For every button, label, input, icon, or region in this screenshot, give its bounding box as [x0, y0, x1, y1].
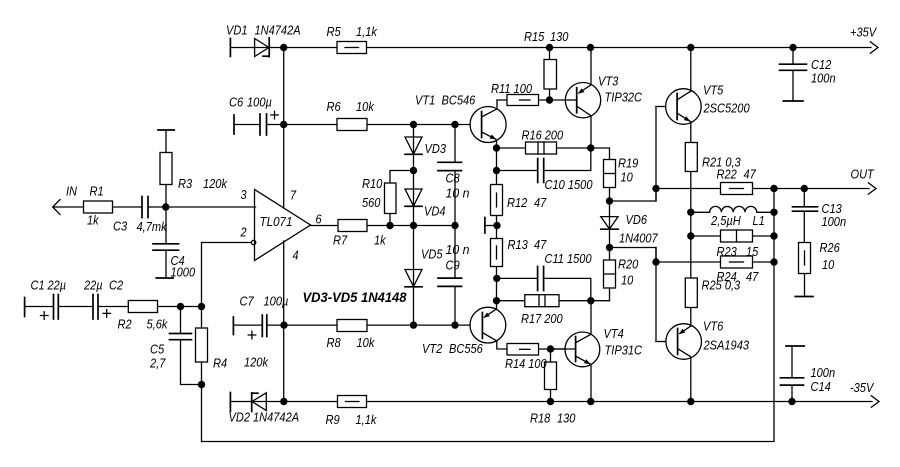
ground bar C14 top	[786, 345, 804, 347]
wire R19 node to VT5 base node	[610, 189, 657, 202]
svg-text:R9: R9	[326, 412, 340, 427]
wire C12 lower lead	[792, 70, 794, 101]
svg-text:R19: R19	[618, 156, 638, 171]
terminal bar VD2	[229, 393, 231, 412]
transistor VT4 TIP31C	[551, 332, 600, 367]
capacitor C9	[438, 278, 462, 286]
resistor R19	[604, 160, 616, 188]
junction R24 right	[770, 258, 777, 265]
junction R10 bottom on R7 row	[386, 222, 393, 229]
capacitor C11	[538, 267, 544, 291]
svg-text:R20: R20	[618, 257, 639, 272]
svg-text:R6: R6	[327, 99, 342, 114]
svg-text:R12: R12	[507, 195, 528, 210]
svg-text:2,5µH: 2,5µH	[710, 213, 741, 228]
svg-text:TL071: TL071	[260, 214, 293, 229]
wire L1 row left	[691, 211, 710, 213]
junction R4 bottom feedback	[198, 381, 205, 388]
wire -35V bottom rail	[230, 401, 872, 403]
wire C3 to node A	[148, 206, 256, 208]
junction R22 right on OUT node	[770, 185, 777, 192]
wire VT5 collector lead	[690, 48, 692, 92]
svg-text:R23: R23	[717, 244, 738, 259]
junction C5 top	[177, 303, 184, 310]
capacitor C1	[41, 295, 59, 320]
junction node A input	[162, 203, 169, 210]
wire VT4 collector lead	[590, 301, 592, 335]
wire C13 upper lead	[803, 189, 805, 207]
wire VT3 emitter lead	[590, 48, 592, 85]
capacitor C4	[153, 244, 179, 250]
svg-text:R8: R8	[327, 335, 342, 350]
junction C13 on OUT row	[801, 185, 808, 192]
svg-text:R26: R26	[820, 240, 841, 255]
wire C6 row	[234, 124, 260, 126]
junction VT5 base OUT row	[652, 185, 659, 192]
resistor R15	[544, 60, 557, 90]
wire R10 top jog	[390, 171, 414, 184]
wire C12 leads	[792, 48, 794, 65]
terminal arrow +35V	[870, 42, 878, 53]
wire C9 bottom lead	[454, 287, 456, 326]
wire node A to C4	[165, 207, 167, 244]
svg-text:100n: 100n	[811, 71, 836, 86]
svg-text:4: 4	[293, 248, 299, 263]
svg-text:C3: C3	[113, 219, 128, 234]
svg-text:R5: R5	[327, 24, 342, 39]
svg-text:2: 2	[240, 225, 248, 240]
junction C14 on -35V rail	[788, 398, 795, 405]
wire VD6 node to VT6 base column	[610, 248, 657, 263]
resistor R7	[338, 220, 367, 232]
wire output devices emitter column R21 R25	[690, 122, 692, 326]
diode VD5	[405, 270, 422, 287]
resistor R25	[685, 278, 697, 308]
svg-text:VD5: VD5	[421, 247, 443, 262]
svg-text:1N4742A: 1N4742A	[253, 410, 299, 425]
svg-text:130: 130	[550, 29, 569, 44]
svg-text:22µ: 22µ	[83, 278, 102, 293]
svg-text:15: 15	[746, 244, 759, 259]
junction C8 C9 node	[451, 222, 458, 229]
svg-text:TIP32C: TIP32C	[605, 90, 643, 105]
junction R16 C10 VT3 collector node	[587, 144, 594, 151]
zener diode VD2	[252, 393, 267, 412]
op-amp U1 TL071	[255, 190, 311, 261]
junction C12 on +35V rail	[789, 44, 796, 51]
wire R10 bottom	[389, 214, 391, 226]
svg-text:100n: 100n	[811, 365, 836, 380]
wire C2 to pin2 node	[98, 306, 202, 308]
wire R18 column	[550, 349, 552, 402]
resistor R1	[84, 201, 113, 213]
zener diode VD1	[255, 38, 270, 57]
svg-text:3: 3	[241, 187, 248, 202]
svg-text:C2: C2	[109, 278, 124, 293]
resistor R13	[491, 239, 503, 267]
svg-text:4,7mk: 4,7mk	[137, 219, 168, 234]
junction VD2 R9 pin4 node	[280, 398, 287, 405]
svg-text:R1: R1	[90, 184, 104, 199]
wire VT2 collector to R14 to VT4 base	[497, 341, 565, 349]
svg-text:R3: R3	[178, 176, 193, 191]
wire R26 lower lead	[804, 274, 806, 297]
svg-text:1,1k: 1,1k	[356, 412, 378, 427]
wire R11 row	[497, 99, 565, 101]
wire C5 branch	[180, 307, 182, 334]
wire op-amp supply column pin7	[283, 48, 285, 209]
wire C7 to R8 to VT2 base	[267, 324, 470, 326]
svg-text:47: 47	[746, 269, 759, 284]
junction VD5 bottom	[410, 321, 417, 328]
svg-text:VT3: VT3	[598, 74, 619, 89]
svg-text:VD6: VD6	[626, 212, 648, 227]
wire C7 row	[233, 324, 262, 326]
svg-text:OUT: OUT	[851, 167, 875, 182]
svg-text:VT2: VT2	[422, 341, 443, 356]
resistor R16	[526, 142, 557, 154]
ground bar R3 top	[158, 129, 174, 131]
wire R17 row	[497, 300, 591, 302]
junction R15 top on +35V rail	[546, 44, 553, 51]
junction C7 R8 pin4 node	[280, 321, 287, 328]
terminal bar VD1 anode	[229, 39, 231, 57]
wire R3 C4 column	[165, 130, 167, 207]
svg-text:1k: 1k	[87, 213, 100, 228]
resistor R9	[338, 396, 367, 408]
junction R17 R20 VT4 collector node	[587, 297, 594, 304]
svg-text:5,6k: 5,6k	[147, 317, 169, 332]
wire R19 VD6 R20 column	[609, 160, 611, 301]
svg-text:1k: 1k	[374, 233, 387, 248]
resistor R11	[507, 95, 539, 106]
wire VT3 collector lead	[590, 116, 592, 148]
svg-text:100µ: 100µ	[264, 294, 289, 309]
svg-text:C10 1500: C10 1500	[545, 177, 594, 192]
wire C13 to R26	[803, 211, 805, 242]
junction VT1 emitter R16	[493, 144, 500, 151]
transistor VT2 BC556	[470, 307, 506, 343]
svg-text:120k: 120k	[203, 176, 228, 191]
wire C11 row left	[497, 277, 538, 279]
svg-text:7: 7	[290, 188, 297, 203]
capacitor C14	[781, 378, 804, 385]
svg-text:R17 200: R17 200	[521, 311, 563, 326]
wire feedback path pin2 to OUT column	[202, 189, 775, 442]
svg-text:R4: R4	[213, 356, 227, 371]
junction R13 C11 VT2 emitter	[493, 275, 500, 282]
wire C4 to ground bar	[165, 250, 167, 278]
svg-text:VD3-VD5 1N4148: VD3-VD5 1N4148	[303, 290, 407, 305]
svg-text:47: 47	[534, 237, 547, 252]
wire VT6 base column	[655, 248, 657, 342]
svg-text:R25 0,3: R25 0,3	[702, 278, 741, 293]
svg-text:1,1k: 1,1k	[356, 24, 378, 39]
resistor R3	[160, 153, 172, 185]
terminal bar C1 left	[24, 298, 26, 317]
transistor VT1 BC546	[470, 100, 506, 143]
svg-text:R2: R2	[118, 317, 133, 332]
op-amp inverting input bubble	[251, 240, 255, 244]
junction C9 bottom VT2 base	[451, 321, 458, 328]
svg-text:BC556: BC556	[449, 341, 483, 356]
junction R24 left VT6 base column	[652, 258, 659, 265]
wire VT5 base column	[655, 107, 657, 202]
diode VD4	[405, 189, 422, 206]
svg-text:VT1: VT1	[415, 93, 435, 108]
svg-text:100µ: 100µ	[247, 95, 272, 110]
resistor R20	[604, 260, 616, 288]
wire R16 node to R19 jog	[591, 148, 610, 160]
svg-text:R22: R22	[717, 167, 738, 182]
svg-text:+35V: +35V	[850, 25, 877, 40]
wire R15 lead	[549, 48, 551, 101]
svg-text:R10: R10	[362, 176, 383, 191]
svg-text:C14: C14	[811, 379, 831, 394]
svg-text:VT6: VT6	[703, 319, 724, 334]
resistor R14	[507, 344, 539, 356]
svg-text:10: 10	[822, 257, 835, 272]
svg-text:560: 560	[362, 195, 381, 210]
capacitor C10	[538, 159, 544, 183]
svg-text:L1: L1	[753, 213, 765, 228]
resistor R24	[721, 256, 753, 268]
svg-text:130: 130	[557, 411, 576, 426]
junction C6 R6 pin7 node	[280, 121, 287, 128]
resistor R23	[721, 230, 753, 242]
terminal arrow OUT	[868, 183, 876, 194]
svg-text:10: 10	[621, 170, 634, 185]
junction R18 bottom on -35V rail	[547, 398, 554, 405]
wire C14 lower lead	[791, 385, 793, 401]
junction R14 R18 VT4 base	[547, 345, 554, 352]
junction R11 R15 VT3 base	[546, 96, 553, 103]
wire C11 row right jog	[544, 278, 591, 300]
transistor VT3 TIP32C	[565, 83, 600, 118]
junction R17 left	[493, 297, 500, 304]
capacitor C3	[142, 197, 148, 218]
resistor R2	[128, 301, 157, 313]
wire feedback stub	[485, 225, 497, 227]
junction R23 left	[687, 232, 694, 239]
svg-text:10 n: 10 n	[446, 242, 470, 257]
resistor R26	[799, 243, 811, 274]
svg-text:C1: C1	[31, 278, 45, 293]
svg-text:2SA1943: 2SA1943	[703, 338, 750, 353]
capacitor C5	[170, 334, 192, 340]
svg-text:C6: C6	[229, 95, 244, 110]
junction VD3 VD4 R10 node	[410, 167, 417, 174]
ground bar C4 bottom	[156, 277, 173, 279]
wire C10 row left	[497, 170, 538, 172]
resistor R12	[491, 185, 503, 216]
junction L1 left	[687, 209, 694, 216]
wire VT5 base stub	[656, 106, 666, 108]
svg-text:R18: R18	[530, 411, 551, 426]
capacitor C6	[260, 111, 278, 135]
wire C1 to C2	[58, 306, 93, 308]
junction R23 right	[770, 232, 777, 239]
svg-text:10k: 10k	[357, 335, 376, 350]
svg-text:R14 100: R14 100	[505, 356, 547, 371]
svg-text:C9: C9	[446, 258, 460, 273]
svg-text:R13: R13	[508, 237, 529, 252]
svg-text:10: 10	[621, 273, 634, 288]
svg-text:C11 1500: C11 1500	[545, 251, 593, 266]
resistor R5	[337, 42, 367, 54]
junction node VD1 R5 pin7	[280, 44, 287, 51]
wire VT6 collector lead	[690, 357, 692, 401]
wire C10 row right jog	[544, 148, 591, 171]
wire C6 to R6 to VT1 base	[267, 124, 471, 126]
wire OUT row	[656, 188, 869, 190]
wire VT4 emitter lead	[590, 365, 592, 402]
svg-text:TIP31C: TIP31C	[605, 343, 643, 358]
junction VD4 VD5 node	[410, 222, 417, 229]
wire R7 row pin6	[311, 225, 456, 227]
resistor R21	[685, 143, 697, 172]
svg-text:VT5: VT5	[703, 83, 724, 98]
svg-text:C7: C7	[240, 294, 255, 309]
svg-text:10 n: 10 n	[446, 186, 470, 201]
junction VT5 collector on +35V rail	[687, 44, 694, 51]
terminal bar C6 left	[233, 115, 235, 134]
capacitor C13	[793, 207, 818, 211]
wire C8 C9 middle column	[454, 171, 456, 278]
junction VD3 top	[410, 121, 417, 128]
resistor R10	[385, 183, 397, 214]
wire R20 bottom jog	[591, 300, 610, 302]
terminal bar C7 left	[232, 317, 234, 335]
svg-text:R7: R7	[333, 233, 348, 248]
feedback tap bar	[484, 218, 486, 234]
junction VT4 emitter on -35V rail	[587, 398, 594, 405]
junction R19 VD6 anode	[606, 197, 613, 204]
resistor R22	[721, 183, 753, 195]
capacitor C8	[438, 162, 462, 170]
wire R24 row	[656, 261, 774, 263]
resistor R6	[337, 119, 367, 131]
svg-text:IN: IN	[66, 184, 78, 199]
svg-text:R16 200: R16 200	[522, 128, 564, 143]
wire diode chain column VD3-VD5	[413, 125, 415, 326]
wire C14 upper lead	[791, 346, 793, 378]
transistor VT5 2SC5200	[666, 89, 702, 125]
wire op-amp supply column pin4	[283, 241, 285, 402]
wire IN row	[53, 206, 142, 208]
wire C5 bottom jog	[181, 340, 202, 385]
resistor R17	[525, 295, 559, 307]
wire VT1 emitter column	[496, 140, 498, 309]
svg-text:1000: 1000	[171, 265, 196, 280]
wire R23 row	[691, 235, 774, 237]
wire VT6 base stub	[656, 341, 666, 343]
junction R12 R13 midpoint	[493, 222, 500, 229]
junction R4 pin2 node	[198, 303, 205, 310]
svg-text:VD1: VD1	[226, 23, 248, 38]
svg-text:47: 47	[744, 167, 757, 182]
svg-text:1N4742A: 1N4742A	[255, 23, 301, 38]
svg-text:R11 100: R11 100	[491, 81, 533, 96]
junction C8 top	[451, 121, 458, 128]
svg-text:-35V: -35V	[850, 380, 874, 395]
capacitor C12	[780, 64, 807, 70]
transistor VT6 2SA1943	[666, 324, 702, 360]
svg-text:C8: C8	[446, 171, 461, 186]
svg-text:BC546: BC546	[442, 93, 476, 108]
svg-text:1N4007: 1N4007	[619, 231, 658, 246]
junction VD6 cathode R20	[606, 244, 613, 251]
wire C8 top lead	[454, 125, 456, 163]
ground bar R26	[795, 296, 813, 298]
inductor L1	[710, 206, 757, 212]
resistor R18	[545, 362, 557, 390]
wire +35V top rail	[230, 47, 871, 49]
ground bar C12	[783, 100, 803, 102]
wire L1 row right	[757, 211, 774, 213]
wire R2 input row	[25, 306, 54, 308]
resistor R8	[337, 320, 367, 332]
capacitor C2	[93, 295, 111, 320]
terminal arrow IN	[53, 200, 60, 215]
resistor R4	[196, 328, 208, 362]
capacitor C7	[248, 315, 267, 339]
svg-text:VT4: VT4	[604, 326, 624, 341]
diode VD3	[405, 137, 422, 154]
svg-text:10k: 10k	[356, 99, 375, 114]
wire R16 row	[497, 147, 591, 149]
junction L1 right	[770, 209, 777, 216]
svg-text:100n: 100n	[822, 214, 847, 229]
svg-text:R15: R15	[524, 29, 545, 44]
svg-text:C5: C5	[150, 342, 165, 357]
svg-text:22µ: 22µ	[47, 278, 66, 293]
svg-text:120k: 120k	[244, 355, 269, 370]
svg-text:VD4: VD4	[424, 204, 446, 219]
svg-text:VD3: VD3	[425, 141, 447, 156]
diode VD6 1N4007	[601, 217, 618, 230]
svg-text:6: 6	[316, 212, 323, 227]
svg-text:47: 47	[534, 195, 547, 210]
svg-text:2,7: 2,7	[149, 356, 166, 371]
svg-text:2SC5200: 2SC5200	[703, 101, 751, 116]
terminal arrow -35V	[871, 396, 879, 407]
junction VT3 emitter on +35V rail	[587, 44, 594, 51]
svg-text:VD2: VD2	[229, 410, 251, 425]
junction C10 left	[493, 167, 500, 174]
junction VT6 collector on -35V rail	[687, 398, 694, 405]
